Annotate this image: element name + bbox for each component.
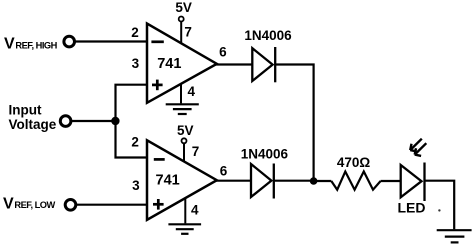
svg-text:1N4006: 1N4006: [244, 28, 292, 43]
svg-text:3: 3: [132, 56, 140, 71]
svg-text:1N4006: 1N4006: [241, 147, 289, 162]
svg-text:7: 7: [184, 24, 192, 39]
svg-text:V: V: [4, 36, 15, 53]
svg-text:6: 6: [219, 44, 227, 59]
svg-text:6: 6: [220, 164, 228, 179]
svg-text:Input: Input: [9, 103, 42, 118]
svg-text:2: 2: [131, 25, 139, 40]
svg-text:Voltage: Voltage: [9, 117, 57, 132]
svg-text:3: 3: [132, 178, 140, 193]
svg-text:LED: LED: [398, 200, 426, 216]
svg-text:7: 7: [192, 144, 200, 159]
svg-text:741: 741: [156, 172, 180, 188]
svg-text:5V: 5V: [175, 0, 192, 15]
svg-text:5V: 5V: [177, 123, 194, 138]
svg-text:4: 4: [191, 203, 199, 218]
svg-text:2: 2: [131, 135, 139, 150]
svg-text:REF, LOW: REF, LOW: [14, 200, 55, 210]
svg-text:V: V: [3, 195, 14, 212]
svg-text:REF, HIGH: REF, HIGH: [15, 40, 57, 50]
svg-text:4: 4: [188, 84, 196, 99]
svg-text:741: 741: [157, 56, 181, 72]
svg-text:470Ω: 470Ω: [337, 155, 371, 170]
